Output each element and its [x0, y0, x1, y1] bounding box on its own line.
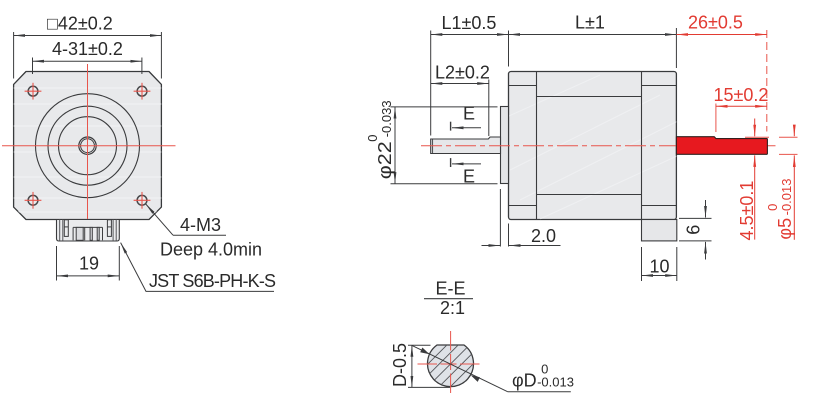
svg-text:E-E: E-E	[436, 279, 466, 299]
section shape D-cut shaft	[391, 340, 509, 390]
svg-text:E: E	[463, 104, 475, 124]
dimension phi5 red	[765, 127, 798, 240]
dimension 42 top	[14, 14, 162, 79]
section crosshair	[418, 331, 484, 397]
dimension 15 red	[714, 85, 769, 132]
cap edge lines	[509, 86, 677, 206]
pilot circle outer	[36, 94, 140, 198]
svg-text:L2±0.2: L2±0.2	[435, 62, 490, 82]
inner step circle	[59, 117, 117, 175]
svg-text:4.5±0.1: 4.5±0.1	[737, 181, 757, 241]
section mark E top	[451, 104, 481, 131]
motor front face body	[10, 72, 165, 220]
boss circle phi22	[48, 106, 127, 185]
svg-text:E: E	[463, 166, 475, 186]
leader JST connector label	[121, 243, 276, 292]
connector housing side	[642, 220, 677, 241]
front end cap line	[536, 72, 538, 220]
svg-text:4-31±0.2: 4-31±0.2	[52, 39, 123, 59]
shaft chamfer circle	[81, 139, 95, 153]
svg-text:D-0.5: D-0.5	[390, 343, 410, 387]
section label E-E 2:1	[424, 279, 473, 318]
center crosshair	[2, 64, 176, 230]
dimension 4-31	[33, 39, 142, 74]
svg-text:□42±0.2: □42±0.2	[47, 14, 113, 34]
svg-text:-0.033: -0.033	[379, 100, 394, 137]
dimension L	[509, 13, 677, 69]
svg-text:26±0.5: 26±0.5	[688, 13, 743, 33]
svg-text:4-M3: 4-M3	[180, 215, 221, 235]
dimension D-0.5	[390, 343, 450, 387]
output shaft red	[676, 137, 767, 155]
svg-text:φ22: φ22	[375, 141, 395, 179]
mounting hole top-left	[25, 83, 42, 100]
dimension phi22	[365, 100, 498, 183]
dimension 4.5 red	[737, 119, 769, 241]
svg-text:19: 19	[79, 254, 99, 274]
svg-text:15±0.2: 15±0.2	[714, 85, 769, 105]
centerline side view	[421, 145, 776, 147]
mounting hole top-right	[134, 83, 151, 100]
shaft circle	[79, 137, 96, 154]
svg-text:L±1: L±1	[575, 13, 605, 33]
motor body side	[500, 72, 690, 220]
svg-text:6: 6	[684, 225, 704, 235]
rear shaft (left)	[431, 137, 501, 154]
leader 4-M3	[146, 204, 262, 259]
svg-text:JST S6B-PH-K-S: JST S6B-PH-K-S	[149, 271, 276, 291]
svg-text:0: 0	[365, 135, 380, 142]
svg-text:10: 10	[650, 256, 670, 276]
pilot boss side	[501, 107, 509, 184]
mounting hole bottom-left	[25, 192, 42, 209]
dimension 6	[679, 200, 712, 260]
mounting hole bottom-right	[134, 192, 151, 209]
dimension 26 red	[676, 13, 766, 132]
dimension L1	[431, 13, 509, 136]
leader phiD	[412, 345, 574, 391]
svg-text:2.0: 2.0	[531, 226, 556, 246]
dimension 10	[642, 247, 677, 281]
svg-text:Deep 4.0min: Deep 4.0min	[160, 239, 262, 259]
section mark E bottom	[451, 158, 481, 186]
svg-text:L1±0.5: L1±0.5	[442, 13, 497, 33]
dimension 19 connector	[57, 246, 120, 281]
connector front view	[57, 220, 120, 242]
rear end cap line	[641, 72, 643, 220]
dimension 2.0	[482, 189, 561, 247]
shaft end chamfer line	[432, 139, 434, 153]
svg-text:2:1: 2:1	[440, 298, 465, 318]
dimension L2	[431, 62, 490, 136]
